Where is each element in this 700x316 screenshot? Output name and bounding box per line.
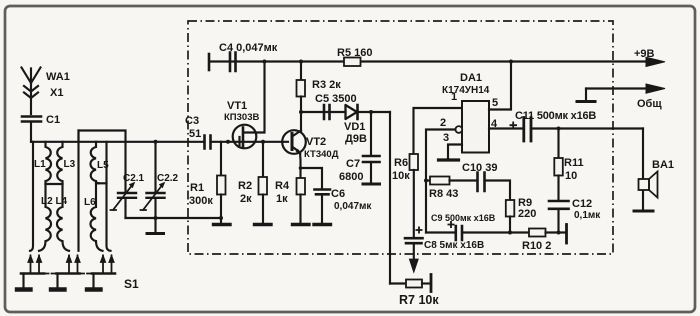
svg-text:Д9В: Д9В: [345, 133, 367, 145]
svg-text:1к: 1к: [276, 193, 288, 205]
svg-text:3: 3: [443, 132, 449, 144]
svg-text:R3 2к: R3 2к: [312, 79, 341, 91]
svg-text:0,1мк: 0,1мк: [574, 210, 601, 221]
svg-text:DA1: DA1: [460, 72, 482, 84]
svg-text:L1: L1: [34, 159, 46, 170]
svg-text:R8 43: R8 43: [429, 188, 458, 200]
svg-text:WA1: WA1: [46, 71, 70, 83]
svg-text:R11: R11: [564, 157, 584, 169]
svg-text:R7 10к: R7 10к: [399, 293, 439, 307]
svg-text:L2 L4: L2 L4: [41, 196, 68, 207]
svg-text:L3: L3: [64, 159, 76, 170]
svg-text:C2.1: C2.1: [123, 173, 145, 184]
svg-text:300к: 300к: [189, 195, 213, 207]
svg-text:BA1: BA1: [652, 159, 674, 171]
svg-text:5: 5: [492, 97, 498, 109]
svg-text:51: 51: [189, 128, 201, 140]
svg-text:R4: R4: [275, 180, 290, 192]
svg-text:10: 10: [565, 170, 577, 182]
svg-text:0,047мк: 0,047мк: [334, 201, 372, 212]
svg-text:R5 160: R5 160: [337, 47, 372, 59]
svg-text:C11 500мк х16В: C11 500мк х16В: [515, 110, 596, 122]
svg-text:10к: 10к: [392, 170, 410, 182]
svg-text:C10 39: C10 39: [462, 162, 497, 174]
svg-text:R2: R2: [238, 180, 252, 192]
svg-text:VT1: VT1: [227, 100, 247, 112]
svg-text:220: 220: [518, 208, 536, 220]
svg-text:C1: C1: [46, 114, 60, 126]
svg-text:6800: 6800: [339, 171, 363, 183]
svg-text:К174УН14: К174УН14: [442, 85, 490, 96]
svg-text:2к: 2к: [240, 193, 252, 205]
svg-text:R10 2: R10 2: [522, 240, 551, 252]
svg-text:R1: R1: [190, 182, 204, 194]
svg-text:C9 500мк х16В: C9 500мк х16В: [431, 213, 496, 223]
svg-text:Общ: Общ: [637, 98, 662, 110]
svg-text:C7: C7: [346, 158, 360, 170]
svg-text:1: 1: [451, 91, 457, 103]
svg-text:C3: C3: [185, 115, 199, 127]
svg-text:КП303В: КП303В: [224, 112, 259, 123]
svg-text:C12: C12: [572, 198, 592, 210]
svg-text:C5 3500: C5 3500: [315, 93, 357, 105]
svg-text:L6: L6: [84, 197, 96, 208]
svg-text:+9В: +9В: [634, 48, 655, 60]
svg-text:X1: X1: [50, 87, 63, 99]
svg-text:2: 2: [440, 117, 446, 129]
svg-text:4: 4: [491, 118, 498, 130]
svg-text:C8 5мк х16В: C8 5мк х16В: [424, 240, 484, 251]
svg-text:C4 0,047мк: C4 0,047мк: [219, 42, 278, 54]
svg-text:C2.2: C2.2: [157, 173, 179, 184]
svg-text:R6: R6: [394, 157, 408, 169]
svg-text:S1: S1: [124, 277, 139, 291]
svg-text:КТ340Д: КТ340Д: [304, 149, 339, 160]
svg-text:L5: L5: [97, 160, 109, 171]
svg-text:VT2: VT2: [306, 136, 326, 148]
svg-text:C6: C6: [331, 188, 345, 200]
svg-text:VD1: VD1: [344, 121, 365, 133]
